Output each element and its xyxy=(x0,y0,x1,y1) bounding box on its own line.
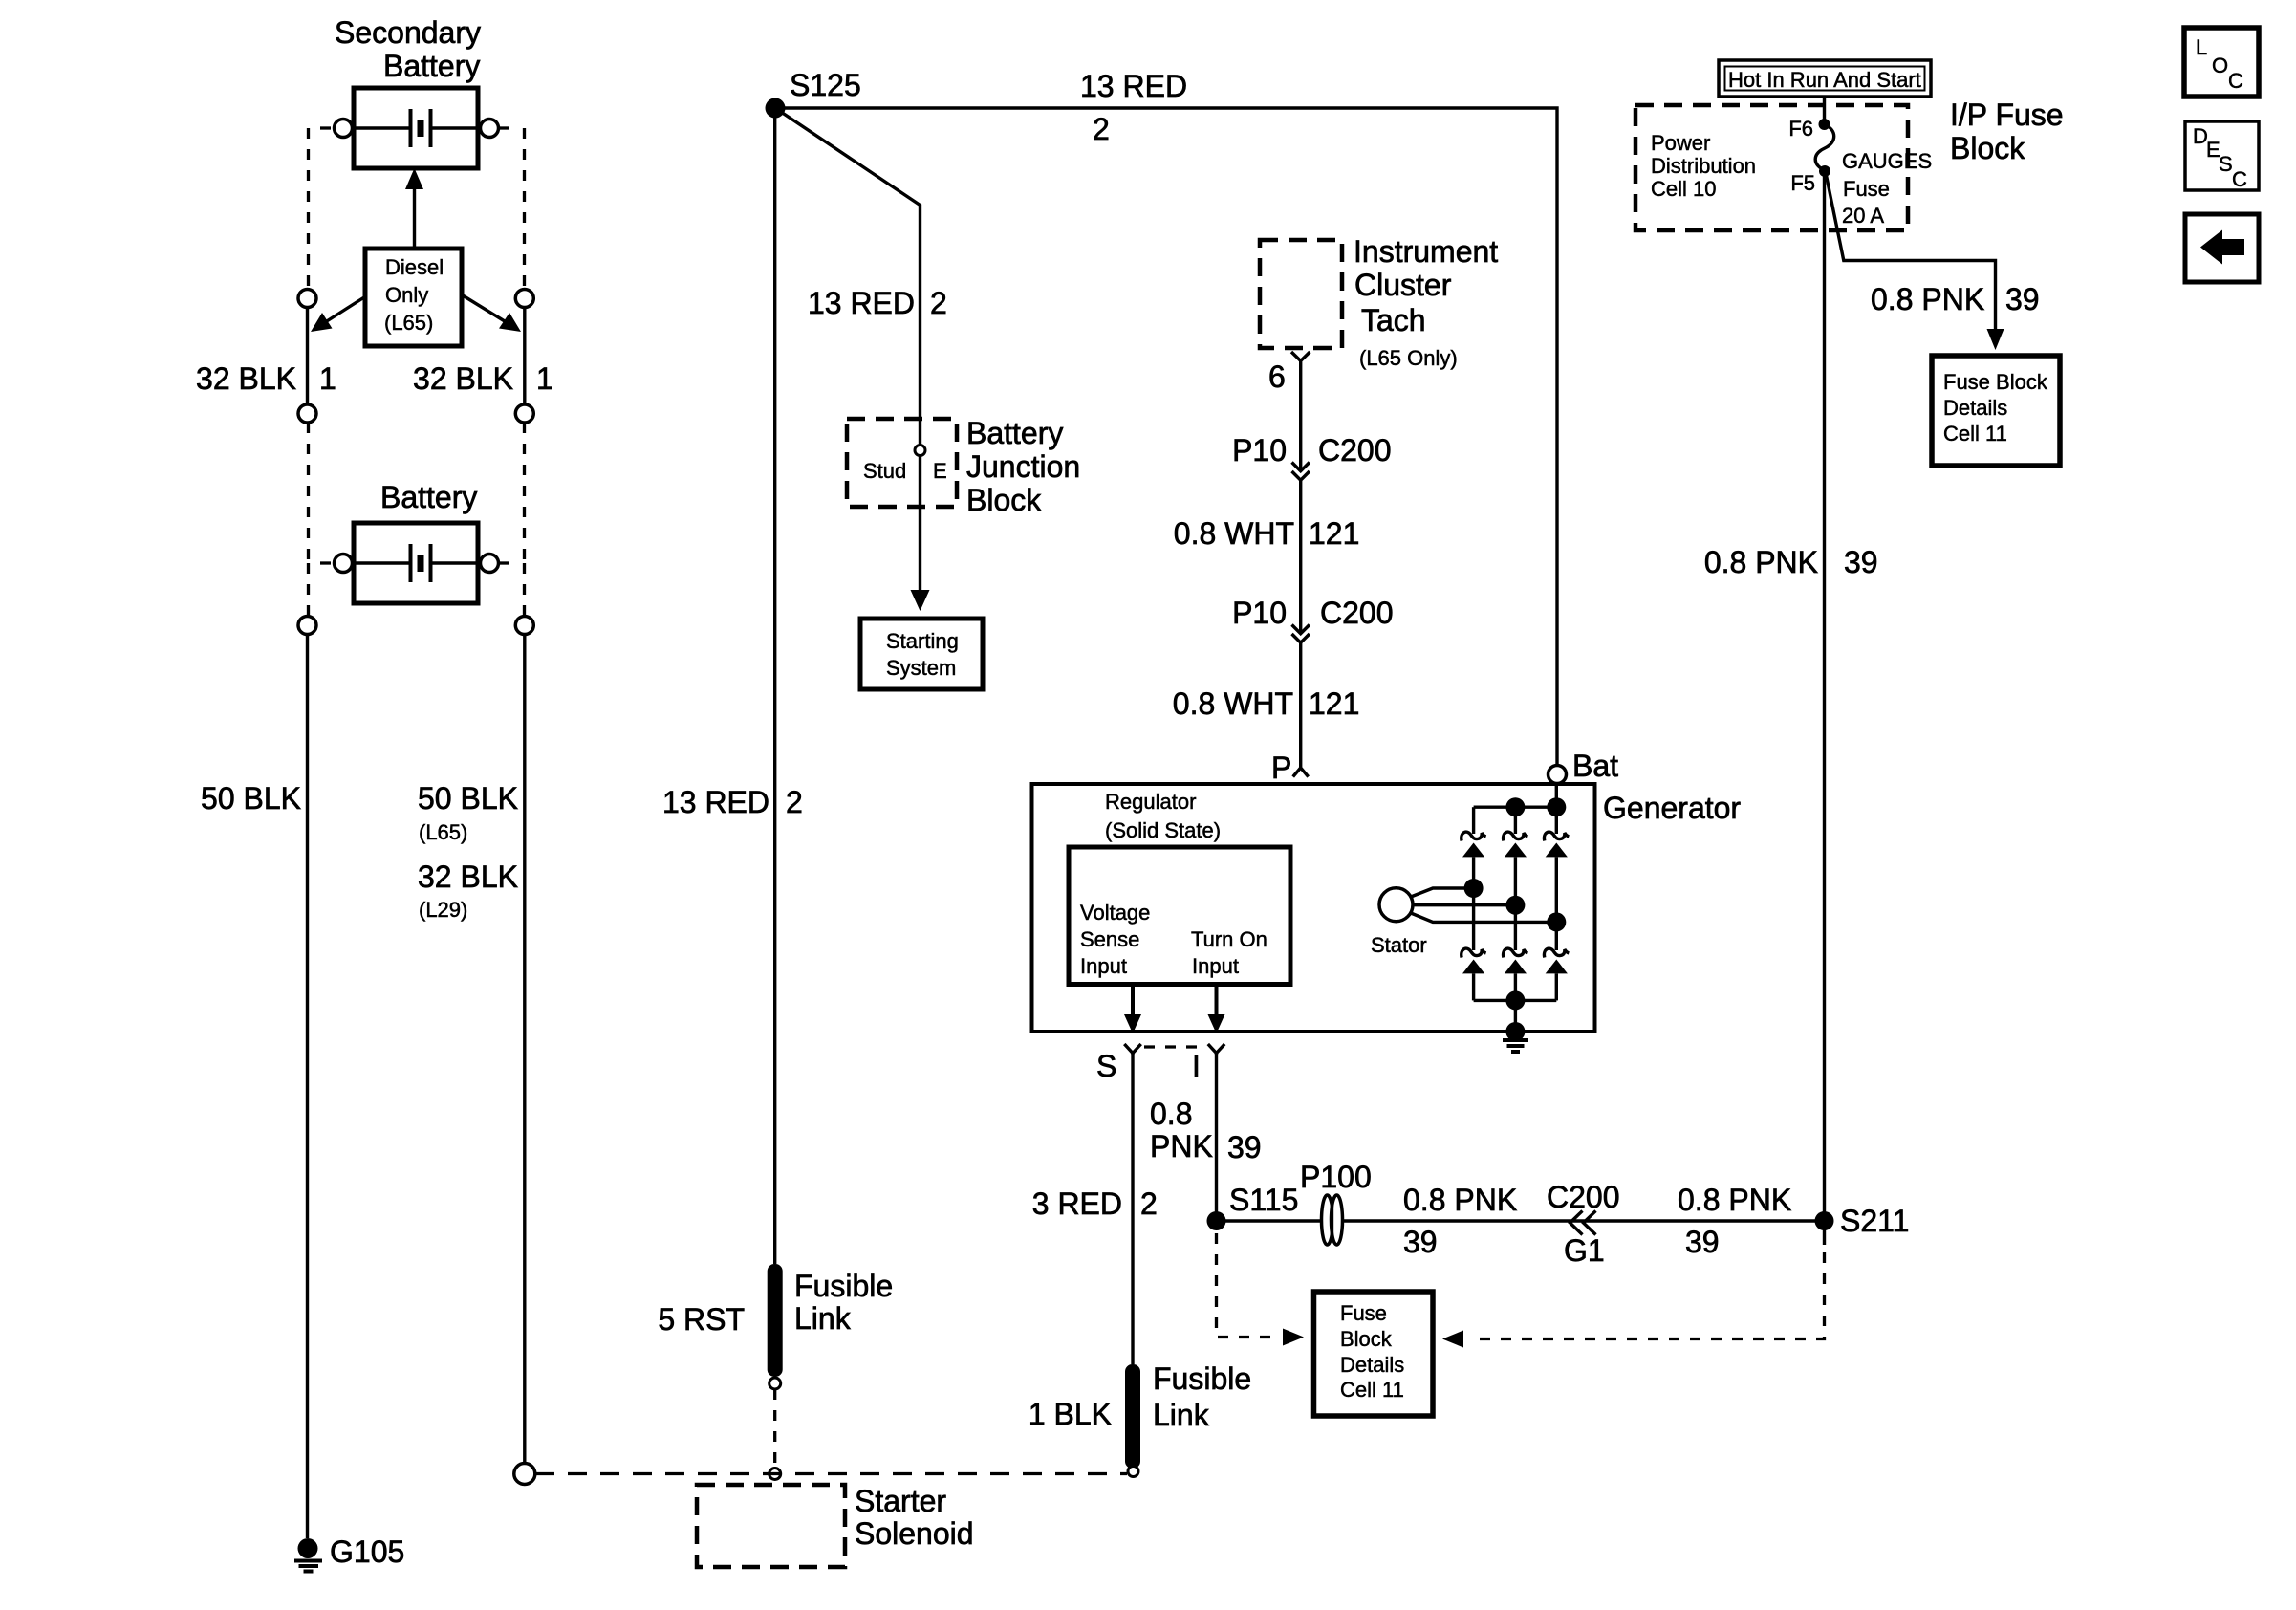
wire 0.8 WHT segment 1 xyxy=(1299,479,1302,632)
svg-text:Regulator: Regulator xyxy=(1105,790,1196,814)
svg-text:Solenoid: Solenoid xyxy=(855,1516,974,1551)
label Diesel Only (L65) xyxy=(384,255,444,335)
svg-text:S: S xyxy=(2219,152,2233,176)
svg-text:3 RED: 3 RED xyxy=(1032,1186,1122,1221)
arrow diesel to left rail xyxy=(311,297,364,332)
dashed connector line S-I xyxy=(1144,1045,1206,1048)
arrow diesel to secondary battery xyxy=(405,168,423,249)
fuse block details box bottom xyxy=(1314,1292,1434,1416)
label Regulator (Solid State) xyxy=(1105,790,1221,842)
junction dot stator right xyxy=(1547,912,1566,931)
wire S211 stub down xyxy=(1823,1221,1826,1245)
label 13 RED 2 mid xyxy=(808,286,947,320)
svg-text:(Solid State): (Solid State) xyxy=(1105,818,1221,842)
svg-text:Stud: Stud xyxy=(863,459,906,483)
svg-text:Link: Link xyxy=(1153,1398,1210,1432)
svg-text:50 BLK: 50 BLK xyxy=(201,781,301,816)
svg-text:Input: Input xyxy=(1080,954,1127,978)
starter solenoid (dashed box) xyxy=(697,1485,845,1567)
wire right rail 32BLK xyxy=(523,308,526,405)
label 0.8 WHT 121 upper xyxy=(1174,516,1360,551)
svg-text:0.8 PNK: 0.8 PNK xyxy=(1704,545,1818,579)
svg-text:Voltage: Voltage xyxy=(1080,901,1150,925)
label 13 RED 2 top xyxy=(1080,69,1187,146)
svg-text:Fuse: Fuse xyxy=(1843,177,1890,201)
wire dashed stub main battery left xyxy=(320,561,334,564)
label I/P Fuse Block xyxy=(1950,98,2064,165)
terminal circle Bat xyxy=(1549,766,1567,784)
svg-text:13 RED: 13 RED xyxy=(662,785,769,819)
wire dashed stub main battery right xyxy=(499,561,512,564)
terminal chevron S xyxy=(1124,1044,1140,1055)
svg-text:2: 2 xyxy=(1140,1186,1158,1221)
svg-text:Sense: Sense xyxy=(1080,927,1139,951)
node S125 xyxy=(766,98,786,119)
stator lead top xyxy=(1411,888,1474,897)
label 0.8 PNK 39 upper xyxy=(1871,282,2040,316)
svg-text:0.8 WHT: 0.8 WHT xyxy=(1173,686,1293,721)
svg-text:Distribution: Distribution xyxy=(1651,154,1756,178)
connector circle right rail 1 xyxy=(515,290,533,308)
svg-text:32 BLK: 32 BLK xyxy=(413,361,513,396)
label P10 C200 upper xyxy=(1232,433,1391,468)
DESC box xyxy=(2185,121,2259,191)
LOC box xyxy=(2184,28,2259,97)
wire left rail dashed upper xyxy=(307,128,310,289)
svg-text:39: 39 xyxy=(1685,1225,1720,1259)
svg-text:Bat: Bat xyxy=(1572,749,1618,783)
label 32 BLK 1 left xyxy=(196,361,336,396)
svg-text:Fuse Block: Fuse Block xyxy=(1943,370,2048,394)
svg-text:(L65 Only): (L65 Only) xyxy=(1359,346,1458,370)
svg-text:0.8: 0.8 xyxy=(1150,1097,1192,1131)
arrow into fuse details left xyxy=(1283,1329,1304,1346)
arrow voltage sense output xyxy=(1124,985,1141,1034)
svg-text:Details: Details xyxy=(1340,1353,1404,1377)
svg-text:1 BLK: 1 BLK xyxy=(1029,1397,1112,1431)
svg-text:13 RED: 13 RED xyxy=(808,286,915,320)
svg-text:Secondary: Secondary xyxy=(335,15,481,50)
terminal circle right rail bottom xyxy=(514,1464,535,1485)
svg-text:C: C xyxy=(2228,69,2243,93)
label C200 G1 xyxy=(1547,1180,1620,1268)
svg-text:Generator: Generator xyxy=(1603,791,1741,825)
ip fuse block (dashed box) xyxy=(1635,105,1908,230)
connector circle left rail 2 xyxy=(298,404,316,423)
svg-text:Stator: Stator xyxy=(1371,933,1427,957)
regulator inner box xyxy=(1069,847,1290,985)
label GAUGES Fuse 20 A xyxy=(1842,149,1932,228)
fuse block details box top xyxy=(1932,356,2060,466)
terminal circle stud E xyxy=(915,446,925,456)
wire left rail dashed lower xyxy=(307,563,310,616)
diode D2 upper middle xyxy=(1504,807,1528,905)
svg-text:PNK: PNK xyxy=(1150,1129,1213,1164)
wire right rail dashed mid xyxy=(523,423,526,563)
svg-text:13 RED: 13 RED xyxy=(1080,69,1187,103)
wire S125 vertical down xyxy=(773,108,776,1264)
diode D6 lower right xyxy=(1544,922,1569,1000)
terminal circle secondary right xyxy=(481,120,499,138)
svg-text:Block: Block xyxy=(966,483,1042,517)
svg-text:P: P xyxy=(1271,751,1291,785)
wire tach to connector C200 xyxy=(1299,365,1302,469)
diode D1 upper left xyxy=(1462,807,1486,888)
svg-text:Junction: Junction xyxy=(966,449,1080,484)
wire S terminal down xyxy=(1131,1054,1134,1365)
svg-text:Link: Link xyxy=(794,1301,852,1336)
svg-text:O: O xyxy=(2212,54,2228,77)
battery junction block (dashed box) xyxy=(847,419,957,507)
svg-text:Fusible: Fusible xyxy=(1153,1361,1251,1396)
wire hot box to F6 xyxy=(1823,97,1826,121)
diode D4 lower left xyxy=(1462,888,1486,1000)
svg-text:121: 121 xyxy=(1309,686,1359,721)
node F6 xyxy=(1819,119,1830,130)
connector P100 inline xyxy=(1322,1195,1343,1245)
svg-text:39: 39 xyxy=(1227,1130,1262,1164)
fusible link 1 BLK xyxy=(1125,1364,1140,1477)
svg-text:(L65): (L65) xyxy=(419,820,467,844)
wire right rail dashed lower xyxy=(523,563,526,616)
svg-text:C200: C200 xyxy=(1320,596,1394,630)
hot in run and start box xyxy=(1719,60,1931,97)
generator outer box xyxy=(1032,784,1595,1032)
svg-text:121: 121 xyxy=(1309,516,1359,551)
svg-text:Diesel: Diesel xyxy=(385,255,444,279)
svg-text:6: 6 xyxy=(1268,359,1286,394)
svg-text:0.8 PNK: 0.8 PNK xyxy=(1871,282,1984,316)
arrow diesel to right rail xyxy=(463,295,521,332)
instrument cluster tach (dashed box) xyxy=(1260,240,1342,348)
svg-text:Only: Only xyxy=(385,283,428,307)
svg-text:G105: G105 xyxy=(330,1534,404,1569)
svg-text:(L29): (L29) xyxy=(419,898,467,922)
node F5 xyxy=(1819,165,1830,177)
wire bus to case ground xyxy=(1514,1000,1517,1032)
wire bat to bus xyxy=(1555,784,1558,807)
svg-text:GAUGES: GAUGES xyxy=(1842,149,1932,173)
svg-text:0.8 PNK: 0.8 PNK xyxy=(1403,1183,1517,1217)
stator lead bottom xyxy=(1411,913,1556,922)
label Fuse Block Details Cell 11 top xyxy=(1943,370,2048,446)
label Instrument Cluster Tach (L65 Only) xyxy=(1354,234,1498,370)
connector circle left rail 3 xyxy=(298,617,316,635)
label Voltage Sense Input xyxy=(1080,901,1150,978)
label Turn On Input xyxy=(1191,927,1267,978)
label 32 BLK 1 right xyxy=(413,361,553,396)
node S211 xyxy=(1815,1211,1834,1230)
label Battery Junction Block xyxy=(966,416,1080,517)
wire right rail dashed upper xyxy=(523,128,526,289)
svg-text:1: 1 xyxy=(319,361,336,396)
terminal circle main right xyxy=(481,555,499,573)
svg-text:Power: Power xyxy=(1651,131,1710,155)
connector C200 chevrons inline xyxy=(1570,1211,1596,1235)
terminal circle solenoid entry xyxy=(769,1469,781,1480)
svg-text:Cell 11: Cell 11 xyxy=(1340,1378,1404,1402)
svg-text:C200: C200 xyxy=(1547,1180,1620,1214)
svg-text:39: 39 xyxy=(1844,545,1878,579)
svg-text:I: I xyxy=(1192,1049,1201,1083)
arrow turn on output xyxy=(1208,985,1225,1034)
wire dashed stub right battery top xyxy=(499,126,512,129)
wire left rail 32BLK xyxy=(306,308,309,405)
svg-text:5 RST: 5 RST xyxy=(658,1302,745,1337)
label 3 RED 2 xyxy=(1032,1186,1158,1221)
battery secondary symbol xyxy=(356,109,476,147)
label 0.8 WHT 121 lower xyxy=(1173,686,1360,721)
wire S211 dashed to details box xyxy=(1471,1252,1825,1339)
svg-text:Details: Details xyxy=(1943,396,2007,420)
stator coil circle xyxy=(1379,888,1413,922)
svg-text:C200: C200 xyxy=(1318,433,1392,468)
svg-text:Block: Block xyxy=(1340,1327,1393,1351)
svg-text:Starter: Starter xyxy=(855,1484,946,1518)
rectifier bottom bus xyxy=(1474,999,1557,1002)
label Fusible Link 1 xyxy=(794,1269,893,1336)
terminal circle main left xyxy=(335,555,353,573)
wire S115 to S211 xyxy=(1217,1219,1825,1222)
svg-text:F6: F6 xyxy=(1788,117,1813,141)
fuse GAUGES 20A (squiggle) xyxy=(1815,124,1834,170)
svg-text:20 A: 20 A xyxy=(1842,204,1884,228)
svg-text:S125: S125 xyxy=(790,68,861,102)
battery main symbol xyxy=(356,544,476,582)
connector C200 chevrons upper xyxy=(1292,463,1310,481)
svg-text:Fuse: Fuse xyxy=(1340,1301,1387,1325)
svg-text:39: 39 xyxy=(2005,282,2040,316)
svg-text:I/P Fuse: I/P Fuse xyxy=(1950,98,2064,132)
junction dot bus right xyxy=(1547,797,1566,816)
svg-text:C: C xyxy=(2232,167,2247,191)
ground generator case xyxy=(1503,1040,1528,1052)
arrow into starting system xyxy=(911,590,930,611)
svg-text:S115: S115 xyxy=(1229,1183,1298,1217)
wire dashed below 5RST link xyxy=(773,1389,776,1467)
terminal circle secondary left xyxy=(335,120,353,138)
svg-text:F5: F5 xyxy=(1790,171,1815,195)
svg-text:Starting: Starting xyxy=(886,629,959,653)
label P10 C200 lower xyxy=(1232,596,1393,630)
starting system box xyxy=(860,619,983,689)
svg-text:Turn On: Turn On xyxy=(1191,927,1267,951)
connector circle right rail 3 xyxy=(515,617,533,635)
svg-text:Battery: Battery xyxy=(380,480,477,514)
svg-text:Hot In Run And Start: Hot In Run And Start xyxy=(1728,68,1921,92)
label 13 RED 2 lower xyxy=(662,785,803,819)
svg-text:S211: S211 xyxy=(1840,1204,1909,1238)
wire S125 diagonal to junction block xyxy=(775,108,921,593)
svg-text:2: 2 xyxy=(1093,112,1110,146)
svg-text:P10: P10 xyxy=(1232,596,1287,630)
label Power Distribution Cell 10 xyxy=(1651,131,1756,201)
svg-text:Tach: Tach xyxy=(1361,303,1426,337)
wire F5 branch to fuse details xyxy=(1826,173,1996,329)
svg-text:System: System xyxy=(886,656,956,680)
back arrow box xyxy=(2185,214,2259,282)
svg-text:P10: P10 xyxy=(1232,433,1287,468)
battery main (box) xyxy=(354,523,478,603)
label 0.8 PNK 39 right span xyxy=(1678,1183,1791,1259)
label Fusible Link 2 xyxy=(1153,1361,1251,1432)
diesel only box xyxy=(365,249,462,346)
terminal chevron I xyxy=(1208,1044,1224,1055)
svg-text:0.8 PNK: 0.8 PNK xyxy=(1678,1183,1791,1217)
junction dot stator left xyxy=(1464,879,1484,898)
svg-text:Cell 11: Cell 11 xyxy=(1943,422,2007,446)
wire left rail dashed mid xyxy=(307,423,310,563)
svg-text:L: L xyxy=(2196,35,2207,59)
svg-text:S: S xyxy=(1096,1049,1116,1083)
label Starting System xyxy=(886,629,959,680)
label 0.8 PNK 39 right rail xyxy=(1704,545,1878,579)
node S115 xyxy=(1207,1211,1226,1230)
rectifier top bus xyxy=(1474,806,1557,809)
svg-text:2: 2 xyxy=(786,785,803,819)
fusible link 5 RST xyxy=(768,1264,783,1389)
junction dot bus middle xyxy=(1505,797,1525,816)
svg-text:Cluster: Cluster xyxy=(1354,268,1452,302)
wire 0.8 WHT segment 2 xyxy=(1299,642,1302,766)
svg-text:Block: Block xyxy=(1950,131,2025,165)
label 0.8 PNK 39 left span xyxy=(1403,1183,1517,1259)
svg-text:39: 39 xyxy=(1403,1225,1438,1259)
svg-text:Input: Input xyxy=(1192,954,1239,978)
svg-text:P100: P100 xyxy=(1300,1160,1372,1194)
terminal chevron pin 6 xyxy=(1291,352,1310,365)
connector circle right rail 2 xyxy=(515,404,533,423)
wire dashed stub left battery top xyxy=(320,126,334,129)
battery secondary (box) xyxy=(354,88,478,168)
svg-text:32 BLK: 32 BLK xyxy=(418,859,518,894)
label Starter Solenoid xyxy=(855,1484,974,1551)
label 50 BLK (L65) 32 BLK (L29) right xyxy=(418,781,518,922)
svg-text:32 BLK: 32 BLK xyxy=(196,361,296,396)
label 0.8 PNK 39 I wire xyxy=(1150,1097,1262,1164)
svg-text:G1: G1 xyxy=(1564,1233,1605,1268)
connector C200 chevrons lower xyxy=(1292,625,1310,643)
arrow into fuse details right xyxy=(1442,1331,1463,1348)
svg-text:1: 1 xyxy=(536,361,553,396)
svg-text:2: 2 xyxy=(930,286,947,320)
wire F5 to S211 xyxy=(1823,171,1826,1221)
junction dot case xyxy=(1505,1022,1525,1041)
svg-text:E: E xyxy=(933,459,947,483)
svg-text:Battery: Battery xyxy=(383,49,480,83)
svg-text:Cell 10: Cell 10 xyxy=(1651,177,1716,201)
svg-text:0.8 WHT: 0.8 WHT xyxy=(1174,516,1294,551)
wire left rail to ground xyxy=(306,635,309,1539)
svg-text:(L65): (L65) xyxy=(384,311,433,335)
svg-text:50 BLK: 50 BLK xyxy=(418,781,518,816)
wire 13 RED top horizontal xyxy=(775,108,1557,766)
ground G105 xyxy=(294,1538,322,1572)
wire S115 dashed to details box xyxy=(1217,1233,1272,1338)
junction dot stator middle xyxy=(1505,896,1525,915)
wire dashed solenoid horizontal xyxy=(535,1472,1127,1475)
diode D5 lower middle xyxy=(1504,905,1528,1001)
stator lead middle xyxy=(1413,903,1515,906)
label Fuse Block Details Cell 11 bottom xyxy=(1340,1301,1404,1402)
connector circle left rail 1 xyxy=(298,290,316,308)
svg-text:Fusible: Fusible xyxy=(794,1269,893,1303)
arrow into fuse block details top xyxy=(1987,329,2004,350)
wire right rail to starter solenoid line xyxy=(523,635,526,1465)
svg-text:Battery: Battery xyxy=(966,416,1063,450)
diode D3 upper right xyxy=(1544,807,1569,922)
svg-text:Instrument: Instrument xyxy=(1354,234,1498,269)
junction dot bottom bus xyxy=(1505,990,1525,1010)
label Secondary Battery xyxy=(335,15,481,83)
wire I terminal to S115 xyxy=(1215,1054,1218,1222)
terminal chevron P xyxy=(1293,766,1309,777)
